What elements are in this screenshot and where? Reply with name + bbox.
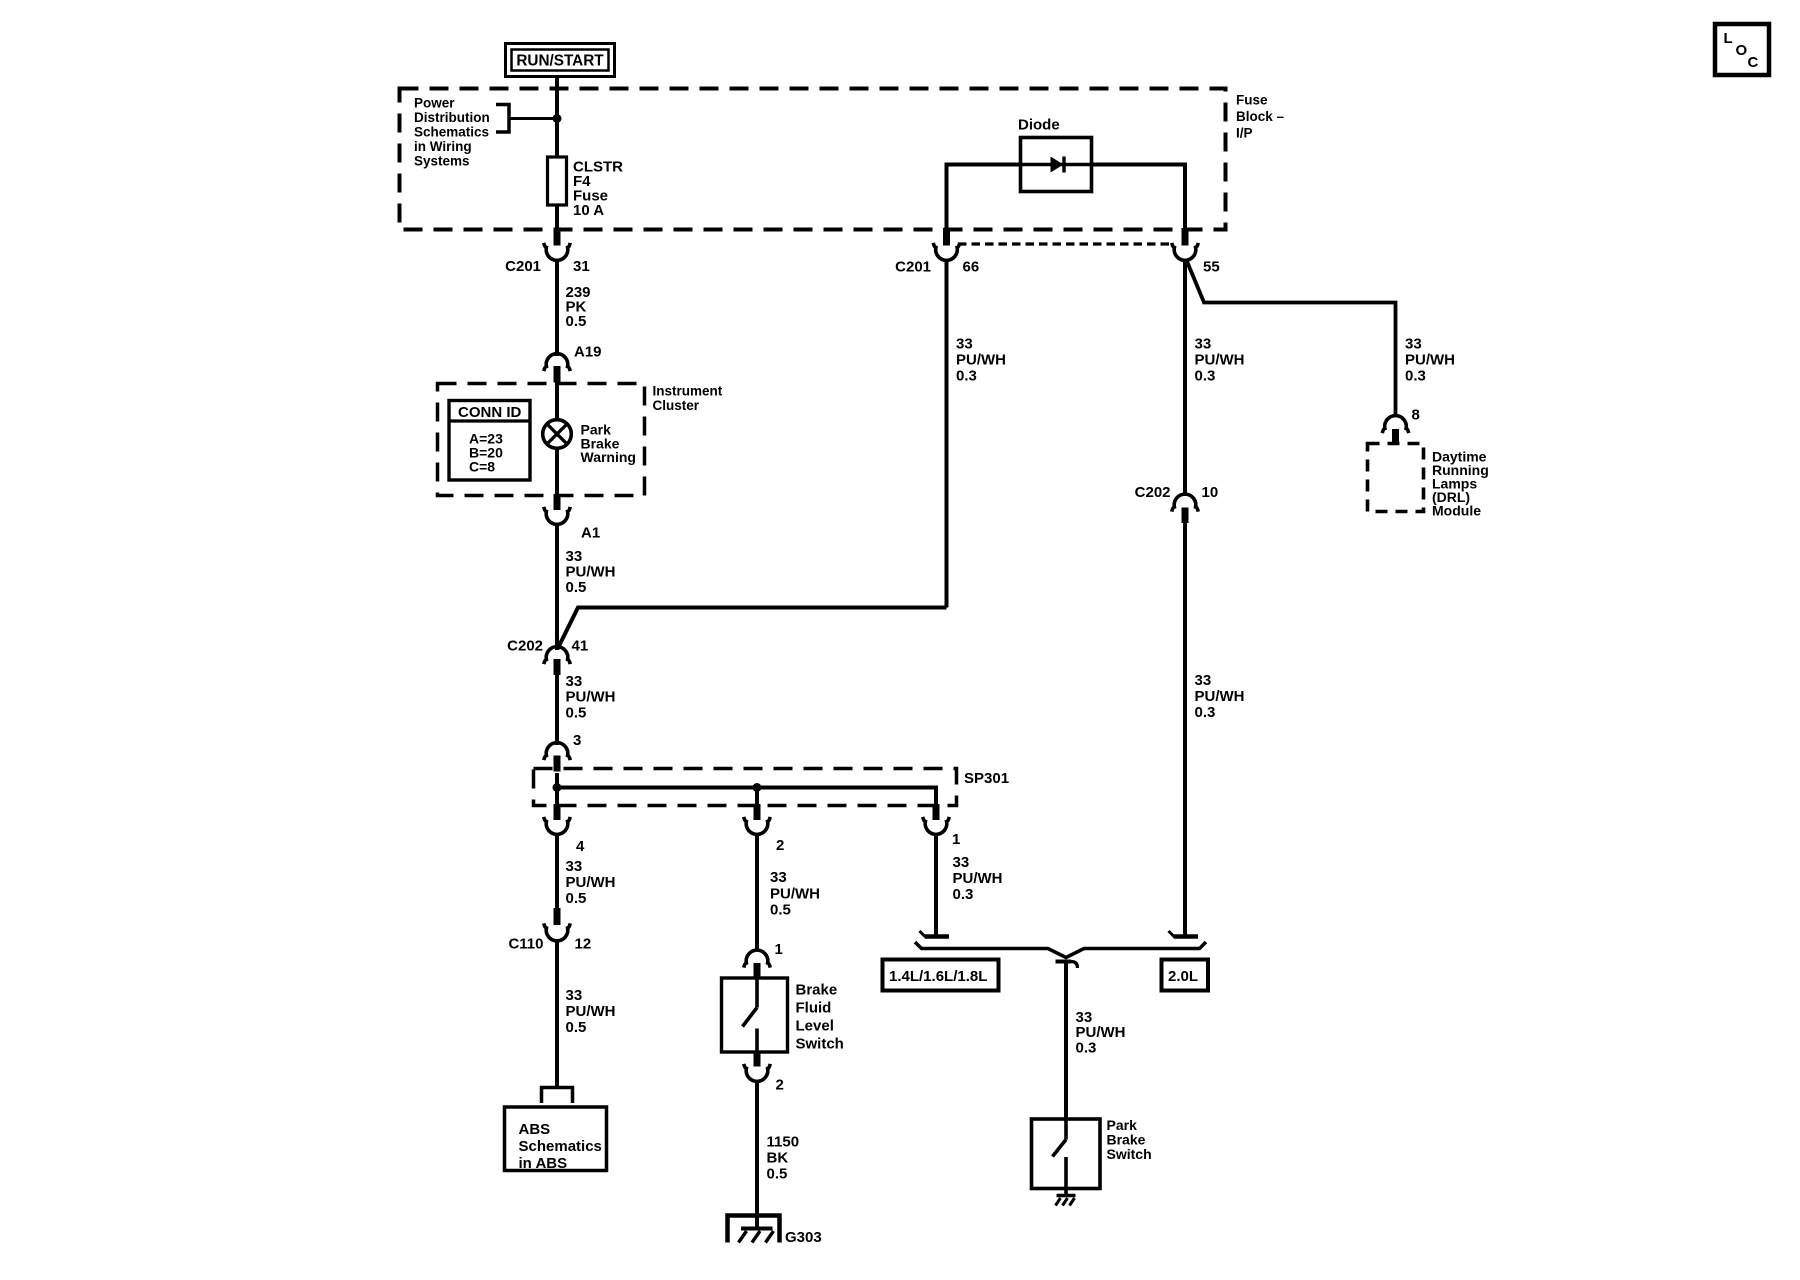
svg-text:Module: Module	[1432, 503, 1481, 519]
svg-text:A19: A19	[574, 344, 602, 361]
brake fluid level switch label	[796, 982, 844, 1053]
svg-text:33: 33	[770, 869, 787, 886]
DRL module dashed box	[1368, 444, 1424, 512]
connector pin 2 brake fluid switch	[744, 1051, 784, 1094]
diode feed wire left	[947, 165, 1021, 231]
wire label 33 PU/WH 0.5 (c)	[566, 858, 616, 907]
svg-text:33: 33	[566, 987, 583, 1004]
svg-text:33: 33	[953, 854, 970, 871]
svg-text:Switch: Switch	[1107, 1146, 1152, 1162]
svg-text:Fuse: Fuse	[1236, 93, 1268, 108]
splice node middle	[753, 783, 762, 792]
splice leg to pin 2	[755, 788, 759, 807]
svg-text:0.5: 0.5	[767, 1166, 788, 1183]
wire label 33 PU/WH 0.3 (i)	[1195, 672, 1245, 721]
Fuse Block - I/P label	[1236, 93, 1285, 141]
RUN/START feed box	[506, 44, 615, 77]
svg-text:C110: C110	[508, 936, 543, 953]
wire label 33 PU/WH 0.3 (h)	[1405, 336, 1455, 385]
svg-text:0.5: 0.5	[566, 1019, 587, 1036]
wire label 33 PU/WH 0.5 (d)	[566, 987, 616, 1036]
svg-text:3: 3	[573, 732, 581, 749]
connector C201 pin 55	[1172, 228, 1220, 276]
Fuse Block - I/P dashed box	[400, 89, 1226, 230]
svg-text:C202: C202	[1135, 484, 1171, 501]
svg-text:33: 33	[1405, 336, 1422, 353]
svg-text:0.5: 0.5	[566, 579, 587, 596]
svg-text:33: 33	[956, 336, 973, 353]
park brake switch label	[1107, 1117, 1152, 1162]
svg-text:Schematics: Schematics	[414, 124, 489, 139]
connector pin 1 brake fluid switch	[744, 941, 783, 978]
svg-text:0.5: 0.5	[566, 704, 587, 721]
wire 33 PU/WH 0.5 C202 to SP301	[555, 675, 559, 745]
svg-text:Brake: Brake	[796, 982, 838, 999]
park brake switch	[1032, 1119, 1101, 1196]
note bracket	[496, 105, 557, 133]
connector C202 pin 10	[1135, 484, 1219, 523]
svg-text:PU/WH: PU/WH	[956, 352, 1006, 369]
svg-text:41: 41	[572, 638, 589, 655]
svg-text:Cluster: Cluster	[653, 398, 700, 413]
svg-text:C=8: C=8	[469, 459, 495, 475]
svg-text:8: 8	[1412, 407, 1420, 424]
svg-text:1: 1	[775, 941, 783, 958]
connector C201 pin 31	[505, 228, 590, 275]
connector pin 4	[544, 804, 585, 855]
svg-text:PU/WH: PU/WH	[1405, 352, 1455, 369]
connector C202 pin 41	[507, 638, 588, 676]
svg-text:C202: C202	[507, 638, 543, 655]
svg-text:ABS: ABS	[519, 1121, 551, 1138]
svg-text:C: C	[1748, 54, 1759, 71]
engine option merge symbol	[915, 931, 1206, 958]
wire label 1150 BK 0.5	[767, 1134, 800, 1183]
svg-text:4: 4	[576, 838, 585, 855]
svg-text:0.3: 0.3	[1076, 1039, 1097, 1056]
svg-text:1.4L/1.6L/1.8L: 1.4L/1.6L/1.8L	[889, 968, 987, 985]
wire RUN/START to fuse	[555, 77, 559, 157]
Instrument Cluster label	[653, 384, 723, 413]
svg-text:SP301: SP301	[964, 770, 1009, 787]
connector A1	[544, 494, 600, 542]
svg-text:I/P: I/P	[1236, 125, 1253, 140]
svg-text:55: 55	[1203, 259, 1220, 276]
svg-text:O: O	[1736, 42, 1748, 59]
splice leg to pin 4	[555, 788, 559, 807]
Instrument Cluster dashed box	[438, 384, 645, 496]
svg-text:PU/WH: PU/WH	[1195, 352, 1245, 369]
svg-text:L: L	[1724, 30, 1733, 47]
svg-text:PU/WH: PU/WH	[566, 689, 616, 706]
splice pack SP301 dashed box	[534, 769, 957, 806]
wire 33 PU/WH 0.5 pin4 to C110	[555, 836, 559, 909]
ground park brake switch	[1056, 1196, 1076, 1206]
park brake warning lamp	[543, 420, 572, 449]
wire label 33 PU/WH 0.5 (a)	[566, 548, 616, 596]
svg-text:33: 33	[566, 673, 583, 690]
svg-text:C201: C201	[895, 259, 931, 276]
ABS schematics box	[505, 1107, 607, 1172]
svg-text:2: 2	[776, 1077, 784, 1094]
svg-text:10: 10	[1202, 484, 1219, 501]
svg-text:G303: G303	[785, 1229, 822, 1246]
CONN ID table	[449, 401, 530, 481]
wire 33 PU/WH 0.5 pin2 to switch	[755, 836, 759, 950]
svg-text:Instrument: Instrument	[653, 384, 723, 399]
svg-text:2: 2	[776, 837, 784, 854]
C201 connector dotted joint line	[958, 242, 1174, 245]
svg-text:Block –: Block –	[1236, 109, 1285, 124]
ground G303	[728, 1216, 822, 1247]
svg-text:Power: Power	[414, 96, 455, 111]
svg-text:A1: A1	[581, 525, 600, 542]
branch wire 55 to DRL	[1186, 259, 1396, 417]
svg-text:33: 33	[566, 548, 583, 565]
svg-text:0.3: 0.3	[953, 886, 974, 903]
svg-text:1150: 1150	[767, 1134, 800, 1151]
splice node left	[553, 783, 562, 792]
engine label 2.0L	[1162, 960, 1209, 991]
connector pin 8 DRL	[1382, 407, 1420, 444]
svg-text:Level: Level	[796, 1018, 834, 1035]
wire label 33 PU/WH 0.5 (b)	[566, 673, 616, 721]
svg-text:PU/WH: PU/WH	[566, 564, 616, 581]
Power Distribution note	[414, 96, 490, 169]
LOC locator box	[1715, 24, 1769, 75]
svg-text:PU/WH: PU/WH	[1195, 688, 1245, 705]
connector pin 3 SP301	[544, 732, 582, 772]
svg-text:BK: BK	[767, 1150, 789, 1167]
wire label 33 PU/WH 0.5 (e)	[770, 869, 820, 919]
svg-text:66: 66	[963, 259, 980, 276]
wire label 239 PK 0.5	[566, 284, 591, 330]
brake fluid level switch	[722, 978, 788, 1052]
wire fuse to C201-31	[555, 205, 559, 231]
wire 33 PU/WH 0.5 A1 to C202	[555, 525, 559, 650]
svg-text:in Wiring: in Wiring	[414, 139, 472, 154]
connector C110 pin 12	[508, 908, 591, 953]
svg-text:Warning: Warning	[581, 449, 636, 465]
wire jog from C201-66 branch	[558, 608, 947, 650]
wire 1150 BK 0.5	[755, 1081, 759, 1228]
svg-text:PU/WH: PU/WH	[770, 885, 820, 902]
DRL module label	[1432, 449, 1489, 519]
svg-text:0.5: 0.5	[566, 890, 587, 907]
diode wire right	[1091, 165, 1185, 231]
connector pin 1	[923, 804, 961, 848]
svg-text:PU/WH: PU/WH	[953, 870, 1003, 887]
lamp label Park Brake Warning	[581, 422, 636, 466]
svg-text:in ABS: in ABS	[519, 1155, 568, 1172]
svg-text:31: 31	[573, 258, 590, 275]
svg-text:2.0L: 2.0L	[1168, 968, 1198, 985]
svg-text:Distribution: Distribution	[414, 110, 490, 125]
svg-text:0.3: 0.3	[1195, 704, 1216, 721]
wire 33 PU/WH 0.3 merge to park brake switch	[1064, 962, 1068, 1120]
wire 239 PK 0.5	[555, 260, 559, 356]
svg-text:0.5: 0.5	[770, 902, 791, 919]
svg-text:PU/WH: PU/WH	[566, 1003, 616, 1020]
svg-text:Schematics: Schematics	[519, 1138, 602, 1155]
svg-text:Switch: Switch	[796, 1036, 844, 1053]
wire 33 PU/WH 0.3 SP301-1 to merge	[934, 836, 938, 937]
wire 33 PU/WH 0.5 C110 to ABS	[555, 940, 559, 1086]
svg-text:33: 33	[1195, 672, 1212, 689]
svg-text:0.3: 0.3	[1405, 368, 1426, 385]
wire label 33 PU/WH 0.3 (g)	[1195, 336, 1245, 385]
wire 33 PU/WH 0.3 55-to-C202	[1183, 260, 1187, 496]
svg-text:12: 12	[575, 936, 592, 953]
svg-text:Fluid: Fluid	[796, 1000, 832, 1017]
wire 33 PU/WH 0.3 66-to-jog	[945, 260, 949, 608]
diode symbol	[1020, 157, 1091, 173]
svg-text:Diode: Diode	[1018, 117, 1060, 134]
diode box	[1021, 138, 1092, 192]
wire label 33 PU/WH 0.3 (j)	[953, 854, 1003, 903]
wire lamp to A1	[555, 448, 559, 495]
wire 33 PU/WH 0.3 C202-10 to merge	[1183, 519, 1187, 937]
connector C201 pin 66	[895, 228, 979, 276]
ABS off-page bracket	[542, 1088, 573, 1104]
connector A19	[544, 344, 602, 383]
wire label 33 PU/WH 0.3 (f)	[956, 336, 1006, 385]
svg-text:RUN/START: RUN/START	[516, 53, 604, 70]
junction node on feed wire	[553, 114, 562, 123]
svg-text:0.3: 0.3	[1195, 368, 1216, 385]
svg-text:33: 33	[1195, 336, 1212, 353]
engine label 1.4L/1.6L/1.8L	[883, 960, 999, 991]
svg-text:Systems: Systems	[414, 153, 470, 168]
svg-text:10 A: 10 A	[573, 202, 604, 219]
wire A19 to lamp	[555, 382, 559, 421]
merge output branch symbol	[1056, 962, 1078, 969]
svg-text:33: 33	[566, 858, 583, 875]
svg-text:CONN ID: CONN ID	[458, 404, 522, 421]
svg-text:C201: C201	[505, 258, 541, 275]
wire label 33 PU/WH 0.3 (k)	[1076, 1009, 1126, 1056]
fuse CLSTR F4 10A	[548, 157, 624, 219]
svg-text:PU/WH: PU/WH	[566, 874, 616, 891]
svg-text:1: 1	[952, 831, 960, 848]
splice bus wire	[555, 773, 936, 806]
connector pin 2	[744, 804, 785, 854]
svg-text:0.5: 0.5	[566, 313, 587, 330]
svg-text:0.3: 0.3	[956, 368, 977, 385]
